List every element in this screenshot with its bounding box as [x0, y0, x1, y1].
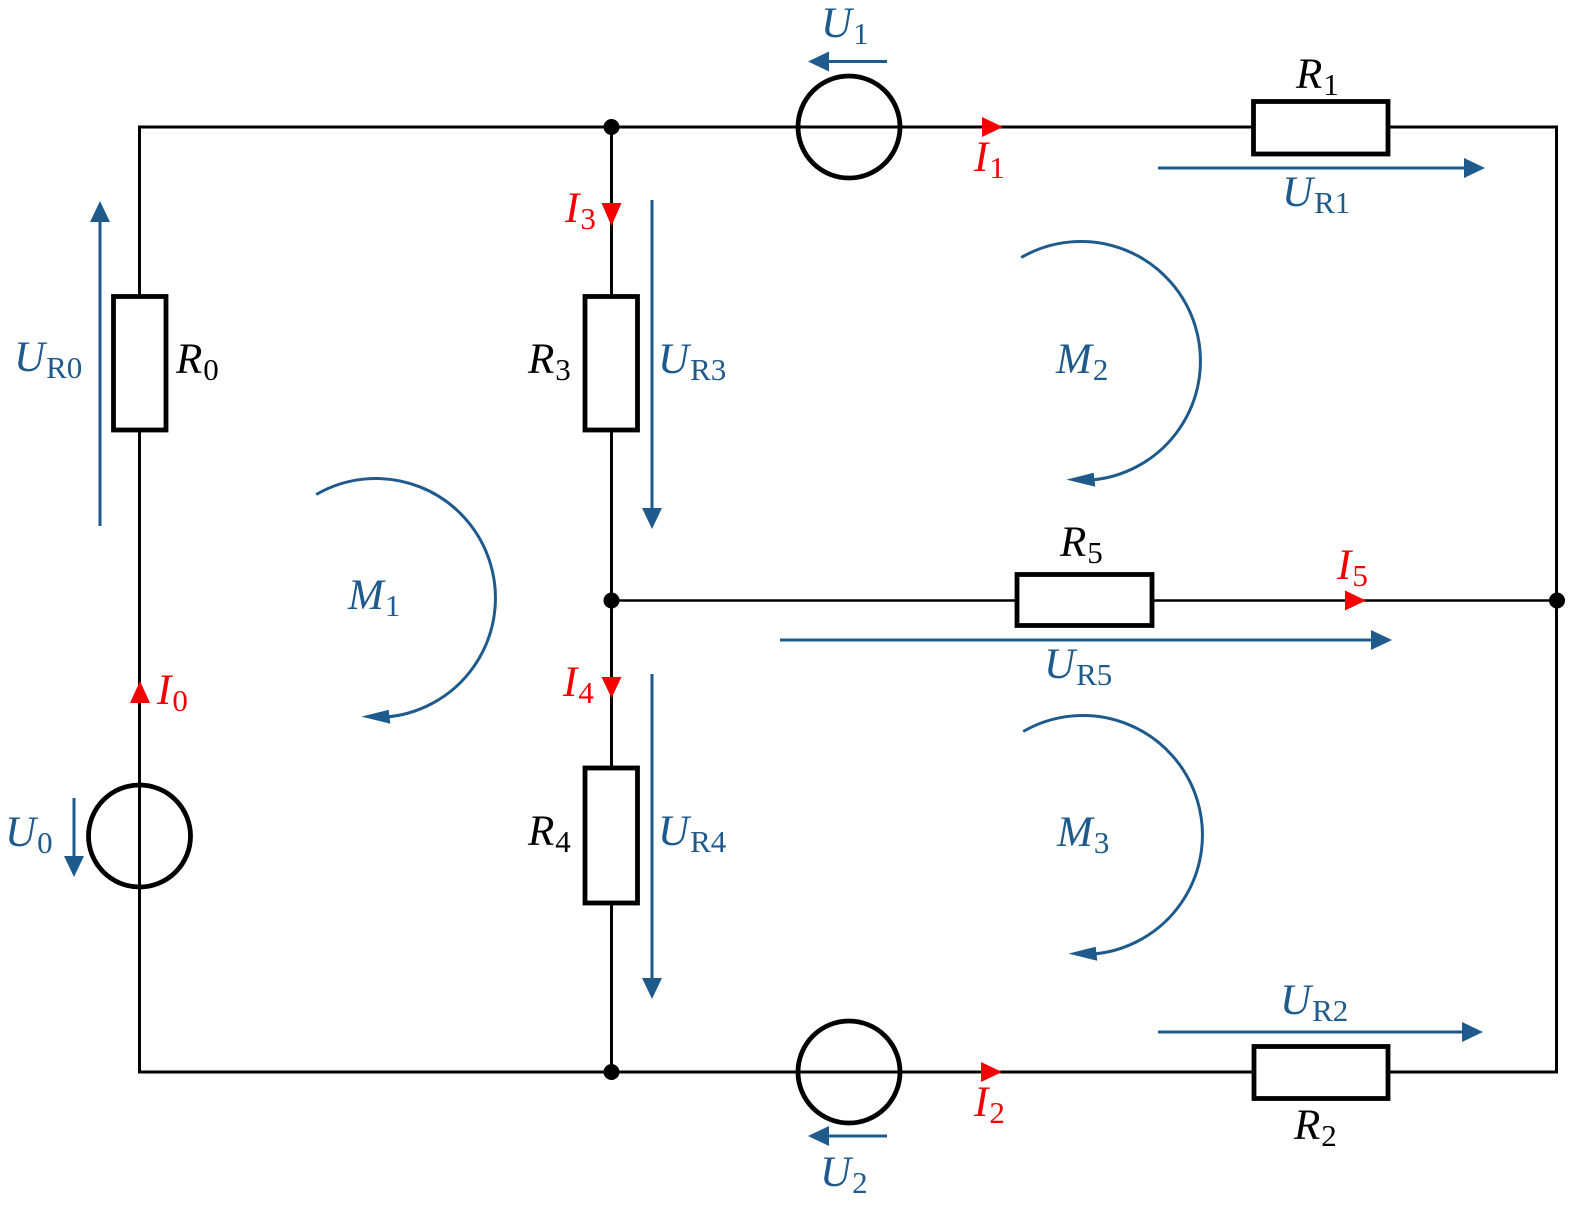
voltage arrow U_R3 [642, 200, 662, 529]
wire: middle horizontal branch (R5) [612, 599, 1558, 602]
current arrow I4 [602, 677, 622, 698]
wire: right vertical [1555, 126, 1558, 1074]
node: bottom junction [604, 1064, 620, 1080]
current arrow I1 [982, 117, 1003, 137]
voltage source U1 (circle) [798, 76, 900, 178]
wire: bottom horizontal [139, 1071, 1557, 1074]
voltage arrow U_R4 [642, 674, 662, 999]
current arrow I2 [981, 1062, 1002, 1082]
wire: top horizontal (left corner to right corner) [139, 126, 1557, 129]
node: top junction [604, 119, 620, 135]
resistor R5 [1017, 575, 1152, 626]
resistor R2 [1254, 1047, 1388, 1099]
wire: left vertical [138, 126, 141, 1074]
voltage arrow U_R1 [1158, 158, 1485, 178]
current arrow I3 [602, 203, 622, 226]
resistor R4 [585, 768, 638, 903]
voltage arrow U0 [64, 798, 84, 877]
voltage source U2 (circle) [798, 1021, 900, 1123]
voltage arrow U_R2 [1158, 1022, 1483, 1042]
current arrow I0 [130, 681, 150, 703]
resistor R0 [114, 297, 167, 431]
voltage arrow U_R0 [90, 201, 110, 526]
mesh current arrow M1 [316, 478, 495, 723]
node: right junction [1549, 593, 1565, 609]
mesh current arrow M2 [1021, 241, 1200, 486]
voltage arrow U2 [808, 1126, 887, 1146]
resistor R3 [585, 297, 638, 431]
wire: middle vertical branch (R3/R4) [610, 127, 613, 1072]
voltage arrow U_R5 [780, 630, 1392, 650]
node: middle junction [604, 593, 620, 609]
resistor R1 [1254, 102, 1389, 155]
voltage source U0 (circle) [89, 785, 191, 887]
mesh current arrow M3 [1023, 715, 1202, 960]
voltage arrow U1 [808, 52, 887, 72]
current arrow I5 [1345, 591, 1366, 611]
